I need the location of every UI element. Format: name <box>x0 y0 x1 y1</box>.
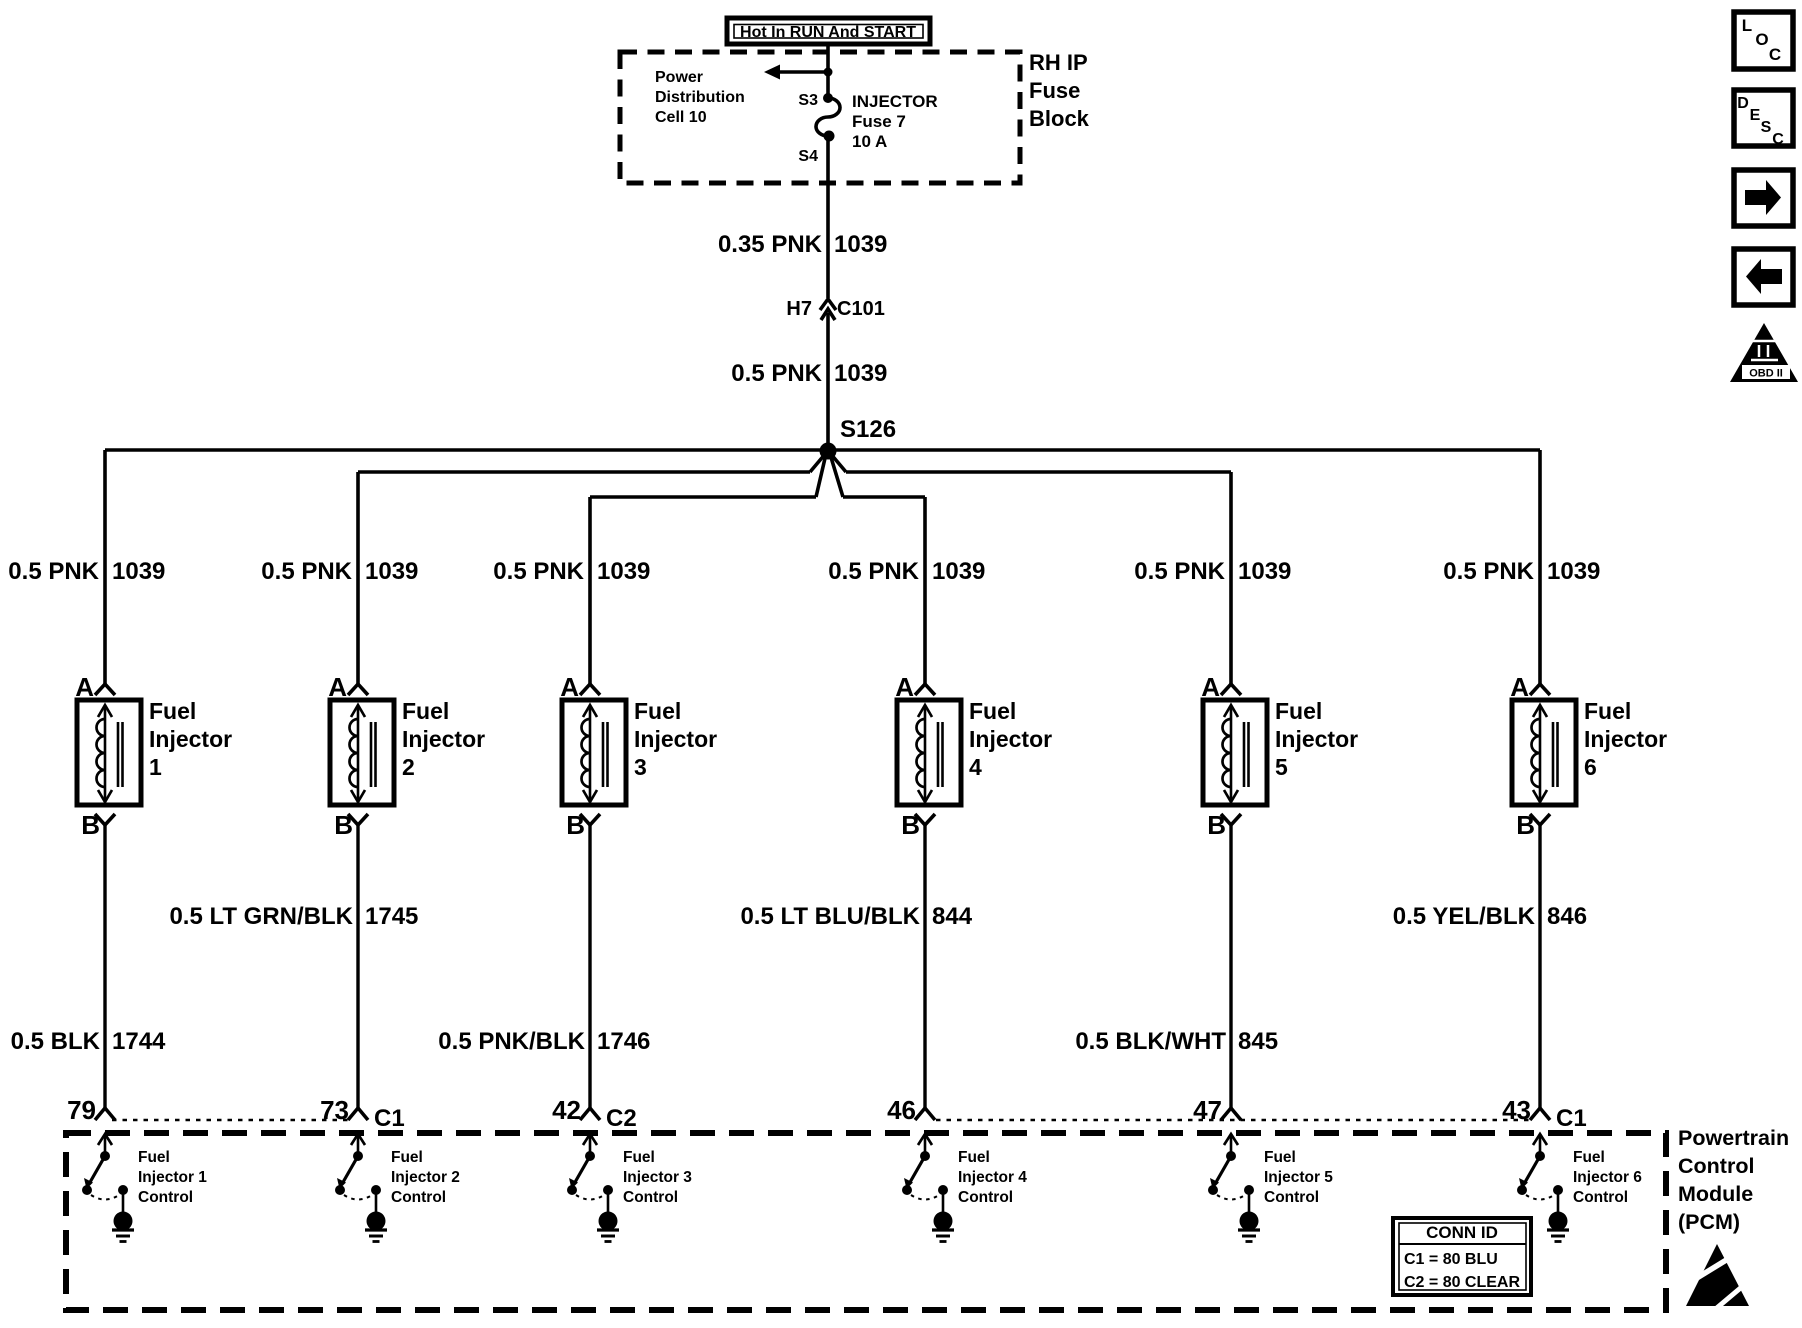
svg-text:1744: 1744 <box>112 1028 166 1055</box>
svg-text:0.5 PNK/BLK: 0.5 PNK/BLK <box>438 1028 585 1055</box>
svg-text:Fuel: Fuel <box>1264 1149 1296 1166</box>
svg-text:H7: H7 <box>786 298 812 320</box>
svg-text:B: B <box>901 810 920 840</box>
svg-text:0.5 BLK/WHT: 0.5 BLK/WHT <box>1075 1028 1226 1055</box>
svg-text:46: 46 <box>887 1095 916 1125</box>
svg-text:Control: Control <box>138 1189 193 1206</box>
svg-text:Fuel: Fuel <box>1584 698 1631 724</box>
svg-text:Control: Control <box>1264 1189 1319 1206</box>
svg-text:1039: 1039 <box>932 558 985 585</box>
svg-text:4: 4 <box>969 754 982 780</box>
svg-text:0.5 PNK: 0.5 PNK <box>493 558 584 585</box>
svg-text:Cell 10: Cell 10 <box>655 109 707 126</box>
svg-text:0.5 YEL/BLK: 0.5 YEL/BLK <box>1393 903 1536 930</box>
svg-text:5: 5 <box>1275 754 1288 780</box>
svg-text:L: L <box>1742 16 1752 35</box>
svg-text:B: B <box>334 810 353 840</box>
svg-text:Control: Control <box>391 1189 446 1206</box>
svg-text:B: B <box>1207 810 1226 840</box>
svg-text:3: 3 <box>634 754 647 780</box>
svg-text:0.5 PNK: 0.5 PNK <box>8 558 99 585</box>
svg-text:C1: C1 <box>1556 1105 1587 1132</box>
svg-text:0.5 PNK: 0.5 PNK <box>1134 558 1225 585</box>
svg-text:A: A <box>75 672 94 702</box>
svg-text:B: B <box>81 810 100 840</box>
svg-text:Module: Module <box>1678 1182 1753 1206</box>
svg-text:Powertrain: Powertrain <box>1678 1126 1789 1150</box>
svg-text:C101: C101 <box>837 298 885 320</box>
svg-text:Fuel: Fuel <box>969 698 1016 724</box>
svg-text:2: 2 <box>402 754 415 780</box>
svg-text:42: 42 <box>552 1095 581 1125</box>
svg-text:1039: 1039 <box>597 558 650 585</box>
svg-text:Fuse 7: Fuse 7 <box>852 112 906 131</box>
svg-text:Control: Control <box>1678 1154 1754 1178</box>
svg-text:E: E <box>1750 107 1761 124</box>
svg-text:1746: 1746 <box>597 1028 650 1055</box>
svg-text:Injector: Injector <box>149 726 232 752</box>
svg-text:Control: Control <box>1573 1189 1628 1206</box>
svg-text:1039: 1039 <box>1238 558 1291 585</box>
svg-text:S126: S126 <box>840 416 896 443</box>
svg-text:Hot In RUN And START: Hot In RUN And START <box>740 24 916 41</box>
svg-text:Distribution: Distribution <box>655 89 745 106</box>
svg-text:Fuel: Fuel <box>958 1149 990 1166</box>
svg-text:C: C <box>1772 131 1784 148</box>
svg-text:0.5 PNK: 0.5 PNK <box>261 558 352 585</box>
svg-text:Control: Control <box>623 1189 678 1206</box>
svg-text:Injector 1: Injector 1 <box>138 1169 207 1186</box>
svg-text:Injector: Injector <box>1275 726 1358 752</box>
svg-text:S: S <box>1761 119 1772 136</box>
svg-text:0.5 PNK: 0.5 PNK <box>1443 558 1534 585</box>
svg-text:A: A <box>1201 672 1220 702</box>
svg-text:Injector: Injector <box>634 726 717 752</box>
svg-text:Injector: Injector <box>402 726 485 752</box>
svg-text:0.35 PNK: 0.35 PNK <box>718 231 823 258</box>
svg-text:Injector 5: Injector 5 <box>1264 1169 1333 1186</box>
svg-text:0.5 LT BLU/BLK: 0.5 LT BLU/BLK <box>740 903 920 930</box>
svg-text:(PCM): (PCM) <box>1678 1210 1740 1234</box>
svg-text:Block: Block <box>1029 106 1090 131</box>
svg-text:C1 = 80 BLU: C1 = 80 BLU <box>1404 1251 1498 1268</box>
svg-text:Fuel: Fuel <box>402 698 449 724</box>
svg-text:79: 79 <box>67 1095 96 1125</box>
svg-text:A: A <box>1510 672 1529 702</box>
svg-text:0.5 BLK: 0.5 BLK <box>11 1028 101 1055</box>
svg-text:Power: Power <box>655 69 703 86</box>
svg-text:1039: 1039 <box>834 360 887 387</box>
svg-text:CONN ID: CONN ID <box>1426 1223 1498 1242</box>
svg-text:1039: 1039 <box>365 558 418 585</box>
svg-text:Control: Control <box>958 1189 1013 1206</box>
svg-text:O: O <box>1755 30 1768 49</box>
svg-text:S4: S4 <box>798 148 818 165</box>
svg-text:1745: 1745 <box>365 903 418 930</box>
svg-text:47: 47 <box>1193 1095 1222 1125</box>
svg-text:0.5 LT GRN/BLK: 0.5 LT GRN/BLK <box>169 903 353 930</box>
svg-text:B: B <box>566 810 585 840</box>
svg-text:A: A <box>895 672 914 702</box>
svg-text:Fuel: Fuel <box>391 1149 423 1166</box>
svg-text:Injector: Injector <box>969 726 1052 752</box>
svg-text:S3: S3 <box>798 92 818 109</box>
svg-text:Fuse: Fuse <box>1029 78 1080 103</box>
svg-text:1: 1 <box>149 754 162 780</box>
svg-text:Fuel: Fuel <box>634 698 681 724</box>
svg-text:INJECTOR: INJECTOR <box>852 92 938 111</box>
svg-text:845: 845 <box>1238 1028 1278 1055</box>
svg-text:C2 = 80 CLEAR: C2 = 80 CLEAR <box>1404 1274 1520 1291</box>
svg-text:Injector 4: Injector 4 <box>958 1169 1027 1186</box>
svg-text:844: 844 <box>932 903 973 930</box>
svg-text:Injector: Injector <box>1584 726 1667 752</box>
svg-text:D: D <box>1737 95 1749 112</box>
svg-text:Injector 6: Injector 6 <box>1573 1169 1642 1186</box>
svg-text:Fuel: Fuel <box>149 698 196 724</box>
svg-text:Injector 3: Injector 3 <box>623 1169 692 1186</box>
svg-text:846: 846 <box>1547 903 1587 930</box>
svg-text:1039: 1039 <box>112 558 165 585</box>
svg-text:C2: C2 <box>606 1105 637 1132</box>
svg-text:A: A <box>560 672 579 702</box>
svg-text:10 A: 10 A <box>852 132 887 151</box>
svg-text:C: C <box>1769 45 1781 64</box>
svg-text:RH IP: RH IP <box>1029 50 1088 75</box>
svg-text:Fuel: Fuel <box>1275 698 1322 724</box>
svg-text:6: 6 <box>1584 754 1597 780</box>
svg-text:1039: 1039 <box>1547 558 1600 585</box>
svg-text:B: B <box>1516 810 1535 840</box>
svg-text:C1: C1 <box>374 1105 405 1132</box>
svg-text:Injector 2: Injector 2 <box>391 1169 460 1186</box>
svg-text:Fuel: Fuel <box>1573 1149 1605 1166</box>
svg-text:A: A <box>328 672 347 702</box>
svg-text:Fuel: Fuel <box>138 1149 170 1166</box>
svg-text:Fuel: Fuel <box>623 1149 655 1166</box>
svg-text:0.5 PNK: 0.5 PNK <box>731 360 822 387</box>
svg-text:0.5 PNK: 0.5 PNK <box>828 558 919 585</box>
svg-text:OBD II: OBD II <box>1749 368 1783 380</box>
svg-text:1039: 1039 <box>834 231 887 258</box>
